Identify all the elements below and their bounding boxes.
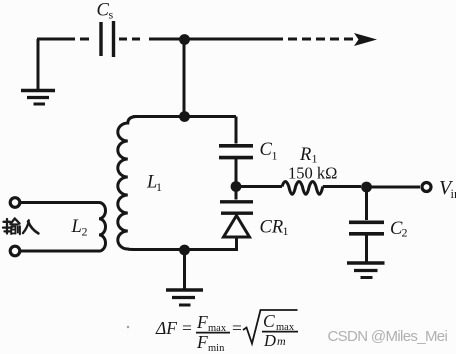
- wire: tank top rail down to C1: [235, 117, 238, 144]
- node B (tank top junction): [179, 111, 190, 122]
- label Vin: [439, 177, 456, 201]
- input terminal (bottom): [10, 246, 20, 256]
- svg-text:min: min: [208, 343, 225, 354]
- formula: equals sign: [232, 318, 242, 338]
- resistor R1 wire left: [236, 185, 282, 188]
- terminal Vin: [422, 183, 431, 192]
- svg-text:C: C: [263, 311, 275, 331]
- ground (below C2): [347, 263, 385, 278]
- formula: delta F =: [155, 318, 192, 338]
- svg-text:R: R: [299, 145, 311, 165]
- svg-text:1: 1: [283, 224, 289, 238]
- label input (Chinese): [3, 219, 38, 235]
- svg-text:F: F: [196, 332, 208, 352]
- arrowhead (dashed rail output): [354, 33, 377, 46]
- wire: C2 to ground: [365, 235, 368, 262]
- speck: [127, 326, 129, 328]
- wire: node A down to tank top: [183, 39, 186, 116]
- svg-text:F: F: [196, 312, 208, 332]
- varactor CR1 (cathode bars): [220, 187, 253, 214]
- inductor L2: [99, 203, 106, 252]
- svg-text:D: D: [263, 331, 276, 350]
- capacitor C1: [219, 146, 253, 158]
- watermark CSDN: [328, 328, 448, 345]
- formula: F min denominator: [196, 332, 225, 354]
- svg-text:2: 2: [402, 226, 408, 240]
- wire: input bottom to L2: [20, 250, 99, 253]
- label 150 kohm: [288, 164, 337, 183]
- label R1: [299, 145, 318, 166]
- svg-text:L: L: [71, 217, 82, 237]
- wire: dashed continuation to arrow: [288, 38, 353, 41]
- wire: node C down to ground: [183, 250, 186, 289]
- svg-text:ΔF: ΔF: [155, 318, 177, 338]
- wire: input top to L2: [20, 201, 99, 204]
- ground (center, tank): [166, 290, 203, 305]
- capacitor C2: [349, 222, 384, 234]
- inductor L1: [118, 117, 137, 250]
- label L1: [146, 173, 162, 195]
- wire: top rail right of node A: [184, 38, 283, 41]
- formula: faded denominator D: [263, 331, 286, 350]
- varactor CR1 (diode triangle): [224, 216, 250, 250]
- label C2: [390, 219, 408, 240]
- label C1: [260, 140, 278, 163]
- svg-text:150 kΩ: 150 kΩ: [288, 164, 337, 183]
- wire: tank bottom rail: [133, 248, 238, 251]
- wire: tank top rail: [133, 115, 236, 118]
- node D (C1 / CR1 / R1 junction): [231, 181, 242, 192]
- svg-text:2: 2: [82, 225, 88, 239]
- node A (top junction): [179, 34, 190, 45]
- formula: C max numerator: [263, 311, 295, 333]
- node E (R1 / C2 / Vin junction): [361, 182, 372, 193]
- wire: C1 to node D: [235, 159, 238, 186]
- node C (tank bottom junction): [179, 245, 190, 256]
- formula: fraction bar: [196, 332, 230, 334]
- svg-text:in: in: [451, 187, 456, 201]
- formula: fraction bar under radical: [262, 331, 298, 333]
- input terminal (top): [10, 198, 20, 208]
- wire: dashed from Cs to node A: [119, 38, 184, 41]
- svg-text:s: s: [109, 8, 114, 22]
- formula: F max numerator: [196, 312, 227, 334]
- svg-text:1: 1: [156, 180, 162, 194]
- wire: top rail from ground to Cs (solid then dashed): [37, 38, 89, 41]
- label L2: [71, 217, 88, 239]
- wire: node E to Vin terminal: [367, 186, 421, 189]
- svg-text:CSDN @Miles_Mei: CSDN @Miles_Mei: [328, 328, 448, 345]
- capacitor Cs: [101, 21, 114, 57]
- svg-text:=: =: [182, 318, 192, 338]
- formula: radical sign: [243, 310, 298, 344]
- resistor R1: [282, 182, 323, 195]
- wire: node E down to C2: [365, 187, 368, 220]
- label Cs: [97, 1, 114, 22]
- ground (top-left): [21, 39, 55, 104]
- label CR1: [260, 218, 289, 239]
- svg-text:=: =: [232, 318, 242, 338]
- svg-text:m: m: [277, 334, 286, 348]
- svg-text:1: 1: [272, 149, 278, 163]
- svg-text:CR: CR: [260, 218, 284, 238]
- wire: resistor to node E: [323, 185, 361, 188]
